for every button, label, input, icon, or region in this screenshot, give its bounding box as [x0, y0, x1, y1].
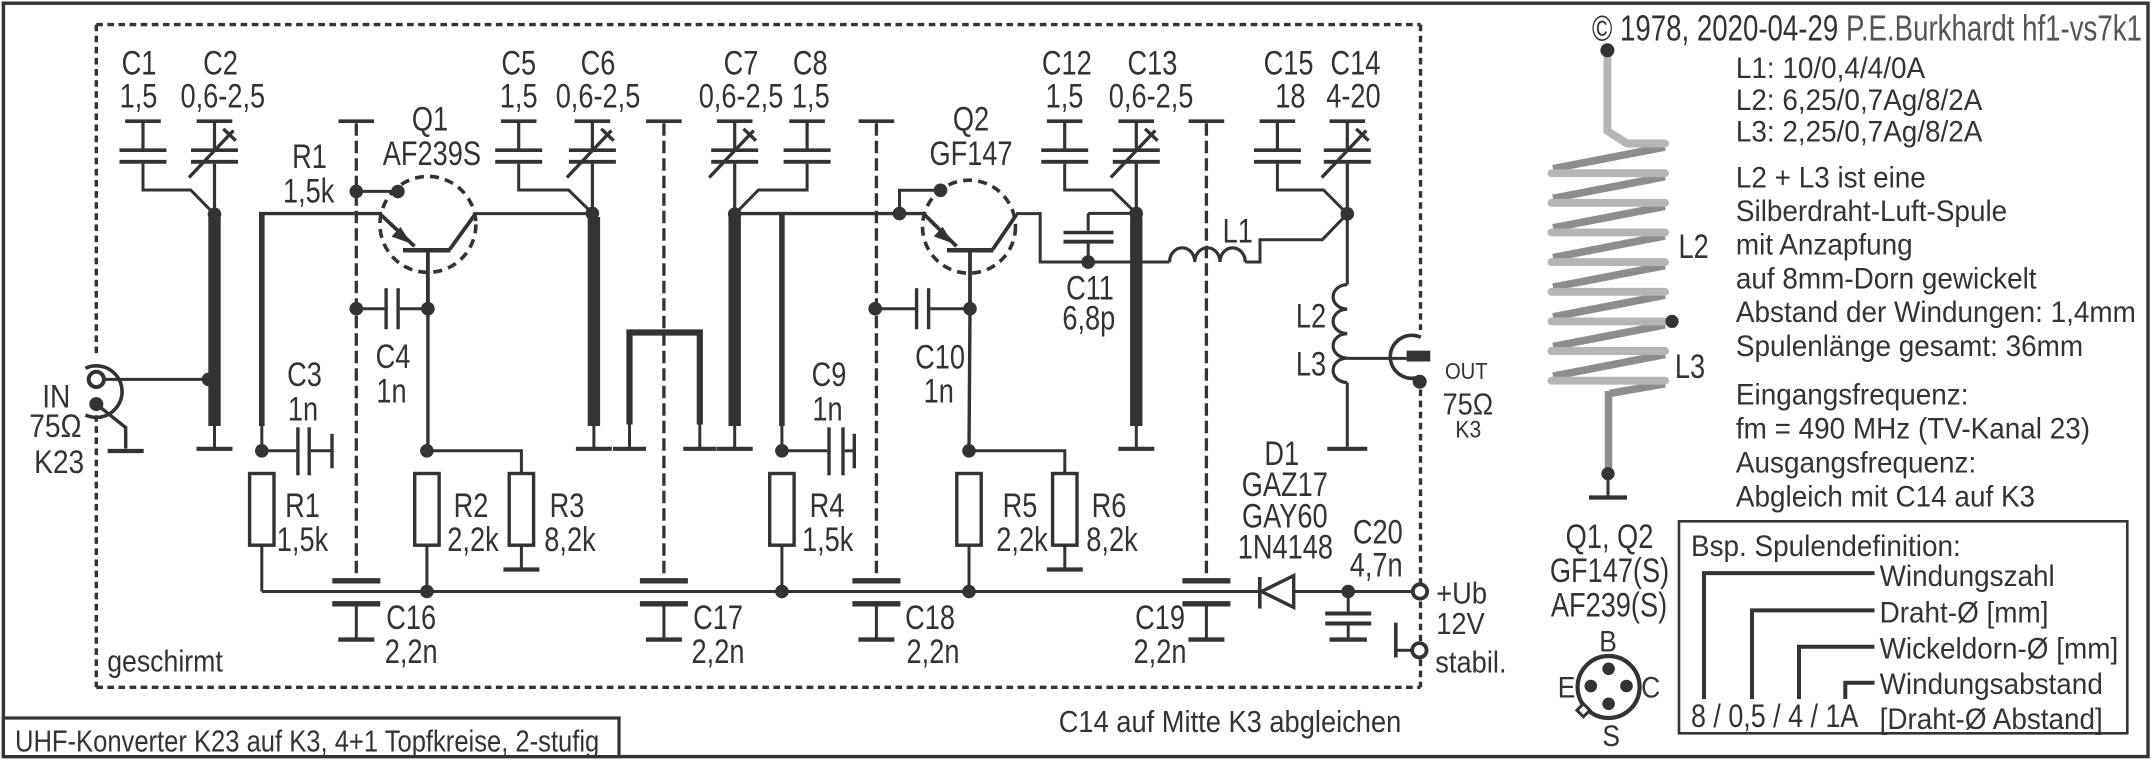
svg-text:Abgleich mit C14 auf K3: Abgleich mit C14 auf K3	[1736, 480, 2035, 513]
label C2	[203, 44, 238, 83]
text frequencies	[1736, 378, 1969, 411]
transistor Q1 body	[380, 176, 476, 272]
svg-text:GF147: GF147	[929, 134, 1012, 173]
feedthrough capacitor C18	[852, 578, 900, 583]
capacitor C9 symbol	[782, 449, 827, 452]
label C12 value	[1046, 76, 1084, 115]
connector IN socket shell	[85, 366, 122, 418]
label R6 value	[1086, 520, 1138, 559]
svg-text:1n: 1n	[376, 372, 406, 411]
label C17	[693, 598, 743, 637]
svg-text:2,2k: 2,2k	[996, 520, 1048, 559]
label AF239(S)	[1551, 586, 1667, 625]
svg-text:L1: 10/0,4/4/0A: L1: 10/0,4/4/0A	[1736, 52, 1926, 85]
label C15 value	[1275, 76, 1305, 115]
label Q1 Q2 heading	[1566, 517, 1654, 556]
capacitor C8 symbol	[789, 119, 825, 123]
svg-text:S: S	[1602, 719, 1620, 753]
label C19	[1135, 598, 1185, 637]
svg-text:1,5: 1,5	[1046, 76, 1084, 115]
diode D1 triangle	[1262, 576, 1294, 608]
transistor case pinout circle	[1578, 656, 1640, 718]
pinout pin C dot	[1620, 680, 1633, 693]
label C1	[122, 44, 157, 83]
connector OUT center pin	[1407, 351, 1431, 362]
svg-text:8 / 0,5 / 4 / 1A: 8 / 0,5 / 4 / 1A	[1691, 699, 1859, 735]
connector OUT shell	[1390, 335, 1421, 378]
transistor Q2 body	[923, 180, 1016, 273]
wire Q2 collector step	[1016, 214, 1170, 262]
node Q1 can connection	[391, 185, 405, 199]
svg-text:stabil.: stabil.	[1435, 646, 1506, 680]
label C11 value	[1062, 298, 1115, 337]
label C4	[376, 337, 411, 376]
transistor Q2 emitter arm	[925, 215, 957, 247]
svg-text:L3: L3	[1675, 347, 1705, 386]
svg-text:8,2k: 8,2k	[544, 520, 596, 559]
svg-text:1,5k: 1,5k	[283, 171, 335, 210]
shield box top edge	[96, 23, 1420, 26]
svg-text:R4: R4	[810, 486, 845, 525]
label C19 value	[1134, 632, 1187, 671]
node R1 top junction	[255, 444, 269, 458]
svg-text:mit Anzapfung: mit Anzapfung	[1736, 229, 1913, 262]
svg-text:C9: C9	[812, 355, 847, 394]
svg-text:P.E.Burkhardt hf1-vs7k1: P.E.Burkhardt hf1-vs7k1	[1846, 8, 2142, 48]
node C1-C2 resonator top junction	[208, 208, 222, 222]
svg-text:C4: C4	[376, 337, 411, 376]
label R1	[285, 486, 320, 525]
svg-text:geschirmt: geschirmt	[107, 645, 223, 679]
connector OUT shield dot	[1413, 375, 1427, 389]
fork line Windungsabstand	[1845, 683, 1874, 699]
fork line Windungszahl	[1704, 573, 1875, 699]
label C14 value	[1326, 76, 1380, 115]
label C5 value	[500, 76, 538, 115]
label R3 value	[544, 520, 596, 559]
title box	[3, 718, 619, 757]
ground coupling loop left	[628, 425, 631, 449]
node output resonator junction	[1341, 207, 1355, 221]
label C13 value	[1109, 76, 1194, 115]
label C9 value	[812, 389, 842, 428]
wire R2 to R3 top	[427, 451, 522, 474]
label C12	[1042, 44, 1092, 83]
coil L2+L3 illustration	[1553, 147, 1665, 169]
label C13	[1127, 44, 1177, 83]
svg-text:C14 auf Mitte K3 abgleichen: C14 auf Mitte K3 abgleichen	[1059, 705, 1402, 739]
svg-text:fm = 490 MHz (TV-Kanal 23): fm = 490 MHz (TV-Kanal 23)	[1736, 412, 2090, 445]
label R1 bias value (upper)	[283, 171, 335, 210]
capacitor C15 symbol	[1260, 119, 1296, 123]
svg-text:Draht-Ø [mm]: Draht-Ø [mm]	[1880, 597, 2049, 630]
label C20	[1353, 513, 1403, 552]
label coil L2	[1678, 227, 1708, 266]
feedthrough capacitor C16	[332, 578, 380, 583]
resonator line 4	[1130, 217, 1142, 426]
svg-text:2,2k: 2,2k	[447, 520, 499, 559]
svg-text:L3: L3	[1296, 344, 1326, 383]
label Bsp Spulendefinition	[1691, 530, 1961, 563]
node shield stub left Q1	[350, 185, 364, 199]
svg-text:L2: L2	[1296, 296, 1326, 335]
resonator line 1 (input Topfkreis)	[208, 217, 220, 426]
svg-text:1n: 1n	[812, 389, 842, 428]
node Q1 base C4 junction	[421, 302, 435, 316]
svg-text:2,2n: 2,2n	[385, 632, 438, 671]
inductor L1	[1170, 248, 1246, 262]
svg-text:0,6-2,5: 0,6-2,5	[699, 76, 784, 115]
svg-text:L2: 6,25/0,7Ag/8/2A: L2: 6,25/0,7Ag/8/2A	[1736, 84, 1983, 117]
wire emitter feed corner to R4	[779, 214, 785, 426]
svg-text:R3: R3	[550, 486, 585, 525]
note C14 adjust	[1059, 705, 1402, 739]
svg-text:Q1: Q1	[412, 100, 448, 139]
label R4 value	[802, 520, 854, 559]
label L1	[1223, 212, 1253, 251]
shield box left edge	[95, 25, 98, 356]
trimmer capacitor C14 symbol	[1330, 119, 1366, 123]
wire IN shield diagonal	[96, 404, 125, 448]
svg-text:[Draht-Ø Abstand]: [Draht-Ø Abstand]	[1880, 703, 2103, 736]
wire Q1 emitter line	[259, 212, 382, 215]
label C15	[1264, 44, 1314, 83]
text coil construction	[1736, 161, 1926, 194]
svg-text:2,2n: 2,2n	[1134, 632, 1187, 671]
transistor Q2 collector arm	[993, 215, 1017, 250]
capacitor C4 symbol	[356, 307, 384, 310]
resistor R2	[415, 474, 439, 546]
ground L3	[1327, 447, 1367, 451]
wire Q2 can stub	[900, 190, 941, 213]
label coil L3	[1675, 347, 1705, 386]
wire Q2 emitter line	[735, 212, 925, 215]
node R2 bus junction	[420, 585, 434, 599]
resistor R6	[1053, 474, 1077, 546]
wire L3 to ground	[1346, 383, 1349, 447]
svg-text:4,7n: 4,7n	[1350, 545, 1403, 584]
label L2 (schematic)	[1296, 296, 1326, 335]
svg-text:C16: C16	[386, 598, 436, 637]
copyright line	[1592, 8, 1838, 48]
svg-text:0,6-2,5: 0,6-2,5	[180, 76, 265, 115]
node shield-C10 junction	[868, 302, 882, 316]
label C7 value	[699, 76, 784, 115]
svg-text:Eingangsfrequenz:: Eingangsfrequenz:	[1736, 378, 1969, 411]
label C20 value	[1350, 545, 1403, 584]
fork line Draht	[1752, 610, 1875, 699]
svg-text:0,6-2,5: 0,6-2,5	[1109, 76, 1194, 115]
label +Ub	[1436, 577, 1487, 611]
label C2 value	[180, 76, 265, 115]
label D1	[1264, 434, 1299, 473]
svg-text:Spulenlänge gesamt: 36mm: Spulenlänge gesamt: 36mm	[1736, 330, 2083, 363]
resistor R1	[250, 474, 274, 546]
svg-text:OUT: OUT	[1445, 358, 1488, 385]
feedthrough capacitor C19	[1182, 578, 1230, 583]
label R2	[454, 486, 489, 525]
label C6	[581, 44, 616, 83]
label R6	[1092, 486, 1127, 525]
capacitor C20 symbol	[1347, 592, 1350, 612]
svg-text:L2 + L3 ist eine: L2 + L3 ist eine	[1736, 161, 1926, 194]
shield wall 3	[859, 119, 895, 123]
svg-text:1,5k: 1,5k	[802, 520, 854, 559]
label C14	[1330, 44, 1380, 83]
label R5 value	[996, 520, 1048, 559]
capacitor C1 symbol	[125, 119, 161, 123]
node Q2 base C10 junction	[963, 302, 977, 316]
node C7-C8 resonator junction	[728, 207, 742, 221]
svg-text:18: 18	[1275, 76, 1305, 115]
wire Q2 base to R5	[969, 309, 970, 451]
trimmer capacitor C6 symbol	[575, 119, 611, 123]
label OUT 75 ohm	[1442, 388, 1493, 422]
capacitor C11 symbol	[1087, 213, 1090, 230]
coil top terminal dot	[1600, 43, 1614, 57]
wire L1 to C14-C15 junction	[1245, 214, 1347, 262]
svg-text:L2: L2	[1678, 227, 1708, 266]
label C8	[793, 44, 828, 83]
coil ground	[1607, 474, 1610, 498]
terminal 12V	[1412, 643, 1426, 657]
label pin C	[1641, 670, 1660, 704]
label stabil.	[1435, 646, 1506, 680]
fork line Wickeldorn	[1799, 647, 1875, 699]
pinout pin B dot	[1602, 663, 1615, 676]
ground resonator 2	[592, 426, 595, 449]
transistor Q1 emitter arm	[381, 215, 415, 246]
label 12V	[1436, 608, 1485, 642]
node Q2 can connection	[934, 184, 948, 198]
shield wall 4	[1189, 119, 1225, 123]
wire emitter feed corner to R1	[259, 214, 265, 426]
shield box right edge	[1419, 25, 1422, 330]
label C18	[905, 598, 955, 637]
wire L2 tap to OUT	[1347, 357, 1406, 360]
label R1 bias (upper)	[292, 137, 327, 176]
ground IN shield	[108, 449, 144, 453]
svg-text:1N4148: 1N4148	[1238, 527, 1333, 566]
transistor Q1 base bar	[403, 248, 451, 253]
resistor R5	[957, 474, 981, 546]
node R4 bus junction	[775, 585, 789, 599]
label Wickeldorn diameter	[1880, 633, 2119, 666]
svg-text:R1: R1	[285, 486, 320, 525]
diode D1 cathode bar	[1258, 577, 1262, 609]
trimmer capacitor C7 symbol	[717, 119, 753, 123]
svg-text:R5: R5	[1003, 486, 1038, 525]
node IN tap on resonator 1	[202, 373, 216, 387]
node C5-C6 resonator junction	[586, 207, 600, 221]
label Windungsabstand	[1880, 668, 2103, 701]
ground resonator 3	[733, 426, 736, 449]
label Draht diameter	[1880, 597, 2049, 630]
title text	[15, 724, 599, 759]
wire Q1 collector to C5-C6	[475, 212, 593, 215]
ground coupling loop right	[698, 425, 701, 449]
svg-text:C18: C18	[905, 598, 955, 637]
svg-text:L1: L1	[1223, 212, 1253, 251]
svg-text:6,8p: 6,8p	[1062, 298, 1115, 337]
svg-text:R6: R6	[1092, 486, 1127, 525]
resistor R3	[509, 474, 533, 546]
svg-text:Wickeldorn-Ø [mm]: Wickeldorn-Ø [mm]	[1880, 633, 2119, 666]
label C8 value	[792, 76, 830, 115]
svg-text:1n: 1n	[288, 389, 318, 428]
text coil specifications	[1736, 52, 1926, 85]
terminal 12V tick	[1394, 623, 1398, 658]
svg-text:8,2k: 8,2k	[1086, 520, 1138, 559]
label geschirmt	[107, 645, 223, 679]
trimmer capacitor C13 symbol	[1119, 119, 1155, 123]
label IN K23	[34, 445, 84, 480]
coupling loop	[630, 333, 700, 425]
terminal +Ub	[1413, 584, 1427, 598]
svg-text:UHF-Konverter K23 auf K3, 4+1: UHF-Konverter K23 auf K3, 4+1 Topfkreise…	[15, 724, 599, 759]
label OUT	[1445, 358, 1488, 385]
label IN	[42, 380, 70, 415]
node R2 top junction	[420, 444, 434, 458]
label C6 value	[556, 76, 641, 115]
svg-text:C: C	[1641, 670, 1660, 704]
svg-text:1n: 1n	[924, 371, 954, 410]
svg-text:2,2n: 2,2n	[692, 632, 745, 671]
svg-text:© 1978, 2020-04-29: © 1978, 2020-04-29	[1592, 8, 1838, 48]
resonator line 2	[588, 217, 600, 426]
label OUT K3	[1455, 416, 1481, 443]
svg-text:Windungsabstand: Windungsabstand	[1880, 668, 2103, 701]
label GF147(S)	[1550, 551, 1669, 590]
label C7	[724, 44, 759, 83]
connector IN shield pin dot	[89, 397, 103, 411]
label R3	[550, 486, 585, 525]
pinout case tab	[1577, 704, 1590, 717]
capacitor C10 symbol	[875, 307, 915, 310]
label pin S	[1602, 719, 1620, 753]
label R4	[810, 486, 845, 525]
label pin E	[1558, 670, 1576, 704]
wire IN pin to resonator tap	[105, 378, 207, 381]
svg-text:75Ω: 75Ω	[29, 410, 81, 445]
wire R5 to R6 top	[969, 451, 1065, 474]
svg-text:Q2: Q2	[953, 100, 989, 139]
svg-text:C17: C17	[693, 598, 743, 637]
wire shield stub to Q1 can	[356, 190, 398, 193]
label C4 value	[376, 372, 406, 411]
label Draht Abstand	[1880, 703, 2103, 736]
label Q1 type AF239S	[383, 134, 481, 173]
svg-text:0,6-2,5: 0,6-2,5	[556, 76, 641, 115]
label D1 type GAZ17	[1242, 465, 1328, 504]
svg-text:AF239S: AF239S	[383, 134, 481, 173]
label C10 value	[924, 371, 954, 410]
pinout pin S dot	[1602, 698, 1615, 711]
connector IN center pin	[89, 372, 104, 387]
svg-text:Bsp. Spulendefinition:: Bsp. Spulendefinition:	[1691, 530, 1961, 563]
label R1 value	[277, 520, 329, 559]
label Q1	[412, 100, 448, 139]
shield wall 1	[339, 119, 375, 123]
svg-text:AF239(S): AF239(S)	[1551, 586, 1667, 625]
svg-text:auf 8mm-Dorn gewickelt: auf 8mm-Dorn gewickelt	[1736, 263, 2037, 296]
svg-text:E: E	[1558, 670, 1576, 704]
bus wire (supply/ground rail)	[262, 590, 1258, 593]
svg-text:Silberdraht-Luft-Spule: Silberdraht-Luft-Spule	[1736, 195, 2007, 228]
svg-text:1,5: 1,5	[792, 76, 830, 115]
node Q2 can stub on emitter line	[893, 207, 907, 221]
capacitor C12 symbol	[1047, 119, 1083, 123]
node C11 bottom junction	[1081, 255, 1095, 269]
label C18 value	[907, 632, 960, 671]
svg-text:K23: K23	[34, 445, 84, 480]
wire C20 to +Ub terminal	[1348, 590, 1411, 593]
svg-text:Ausgangsfrequenz:: Ausgangsfrequenz:	[1736, 446, 1976, 479]
svg-text:C10: C10	[915, 337, 965, 376]
label C17 value	[692, 632, 745, 671]
label C11	[1066, 268, 1114, 307]
label C9	[812, 355, 847, 394]
label Q2	[953, 100, 989, 139]
node C12-C13 resonator junction	[1129, 207, 1143, 221]
svg-text:Abstand der Windungen: 1,4mm: Abstand der Windungen: 1,4mm	[1736, 296, 2136, 329]
label IN 75 ohm	[29, 410, 81, 445]
wire Q1 base to R2	[426, 309, 429, 451]
svg-text:1,5: 1,5	[500, 76, 538, 115]
label R2 value	[447, 520, 499, 559]
node C20 junction	[1341, 585, 1355, 599]
label L3 (schematic)	[1296, 344, 1326, 383]
capacitor C3 symbol	[262, 449, 296, 452]
svg-text:L3: 2,25/0,7Ag/8/2A: L3: 2,25/0,7Ag/8/2A	[1736, 116, 1983, 149]
node R5 bus junction	[962, 585, 976, 599]
svg-text:Windungszahl: Windungszahl	[1880, 560, 2055, 593]
label C16	[386, 598, 436, 637]
label C10	[915, 337, 965, 376]
ground R6	[1047, 567, 1083, 571]
label C3 value	[288, 389, 318, 428]
ground resonator 4	[1135, 426, 1138, 449]
svg-text:1,5: 1,5	[120, 76, 158, 115]
svg-text:12V: 12V	[1436, 608, 1485, 642]
coil bottom terminal dot	[1601, 467, 1614, 480]
resonator line 3	[729, 217, 741, 426]
shield wall 2	[646, 119, 682, 123]
transistor Q2 base bar	[947, 248, 994, 253]
wire D1 anode to C20	[1294, 590, 1349, 593]
wire Q2 base lead	[968, 252, 972, 309]
svg-text:K3: K3	[1455, 416, 1481, 443]
label C16 value	[385, 632, 438, 671]
svg-text:B: B	[1599, 624, 1617, 658]
node R5 top junction	[962, 444, 976, 458]
svg-text:GF147(S): GF147(S)	[1550, 551, 1669, 590]
svg-text:Q1, Q2: Q1, Q2	[1566, 517, 1654, 556]
capacitor C5 symbol	[501, 119, 537, 123]
inductor L2-L3	[1346, 214, 1349, 285]
transistor Q1 collector arm	[450, 215, 475, 250]
node R4 top junction	[775, 444, 789, 458]
coil tap dot	[1665, 315, 1678, 328]
svg-text:+Ub: +Ub	[1436, 577, 1487, 611]
label D1 type 1N4148	[1238, 527, 1333, 566]
label C1 value	[120, 76, 158, 115]
svg-text:C3: C3	[287, 355, 322, 394]
label Q2 type GF147	[929, 134, 1012, 173]
feedthrough capacitor C17	[640, 578, 688, 583]
shield box bottom edge	[96, 686, 1420, 689]
svg-text:R2: R2	[454, 486, 489, 525]
